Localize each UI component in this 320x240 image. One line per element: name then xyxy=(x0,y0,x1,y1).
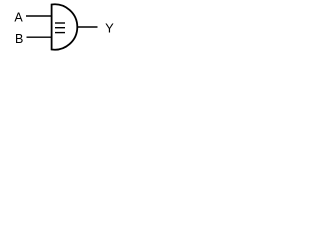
gate U1 equivalence mark (three bars) xyxy=(55,23,65,33)
wire input A xyxy=(26,15,52,17)
wire input B xyxy=(27,36,52,38)
gate U1 body (circle-segment logic gate) xyxy=(52,4,78,49)
svg-text:A: A xyxy=(14,11,23,25)
svg-text:Y: Y xyxy=(105,20,114,35)
wire output Y xyxy=(77,26,98,28)
svg-text:B: B xyxy=(15,32,23,46)
